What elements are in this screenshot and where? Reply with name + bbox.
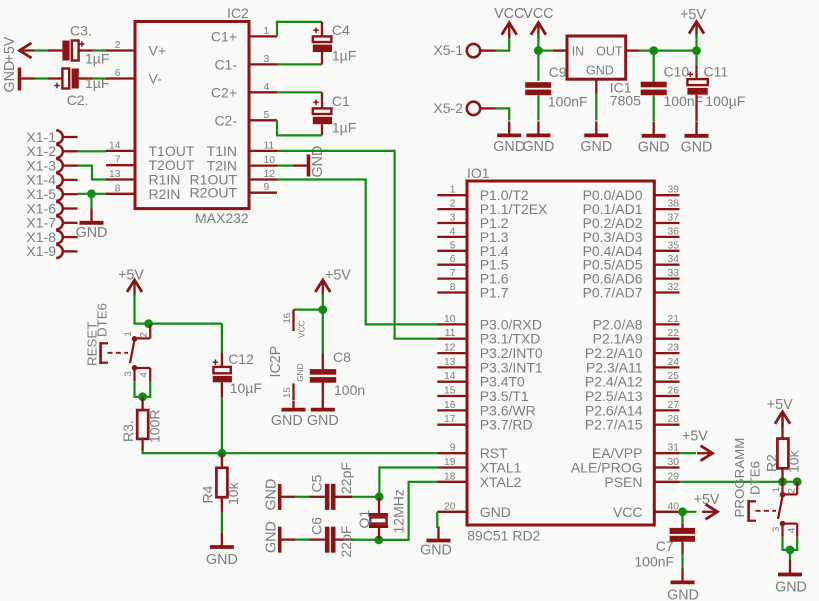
capacitor C6 22pF <box>309 517 355 558</box>
connector X5-2 <box>433 100 495 116</box>
svg-text:GND: GND <box>264 521 280 553</box>
svg-text:15: 15 <box>282 387 293 398</box>
connector X1-2 <box>26 143 77 159</box>
svg-text:10µF: 10µF <box>230 380 262 396</box>
svg-text:C1-: C1- <box>214 56 237 72</box>
ground GND under R4 <box>206 533 238 568</box>
wire switch pins 3/4 to R3 <box>135 381 151 397</box>
connector X1-9 <box>26 243 77 259</box>
svg-text:GND: GND <box>480 504 511 520</box>
ground GND under C10 <box>638 122 670 156</box>
wire IC2 pin4 to C1 top <box>277 91 322 93</box>
wire +5V to C11 <box>695 34 697 66</box>
svg-text:6: 6 <box>115 68 121 79</box>
IO1 pin 14 P3.4T0 <box>437 371 525 390</box>
wire IO1 XTAL1 to crystal top <box>379 468 437 497</box>
svg-text:100R: 100R <box>147 410 163 443</box>
junction at C11/+5V <box>692 46 701 55</box>
svg-text:37: 37 <box>668 213 680 224</box>
switch S-RESET DTE6 (pins 1,2) <box>123 325 150 342</box>
svg-text:35: 35 <box>668 240 680 251</box>
svg-text:IC2: IC2 <box>227 5 249 21</box>
wire IO1 XTAL2 to crystal bottom <box>379 482 438 540</box>
IC2 pin 9 R2OUT <box>190 182 277 201</box>
IC1 IN pin <box>553 49 567 51</box>
svg-text:C9: C9 <box>549 64 567 80</box>
svg-text:2: 2 <box>139 332 150 337</box>
svg-text:3: 3 <box>450 213 456 224</box>
connector X1-1 <box>26 129 77 145</box>
svg-text:15: 15 <box>444 386 456 397</box>
svg-text:R2: R2 <box>764 454 780 472</box>
power +5V at VCC pin <box>694 492 720 519</box>
connector X1-5 <box>26 186 77 202</box>
switch S-PROGRAMM (pins 3,4) <box>771 521 798 537</box>
wire junction to C10 <box>653 51 655 82</box>
wire VCC to IC1 IN and C9 <box>538 34 552 81</box>
connector X1-4 <box>26 172 77 188</box>
IC2 pin 11 T1IN <box>207 140 277 159</box>
svg-text:20: 20 <box>444 501 456 512</box>
wire +5V to C3 <box>35 49 49 51</box>
svg-text:GND: GND <box>586 64 614 78</box>
svg-text:7: 7 <box>450 268 456 279</box>
svg-text:GND: GND <box>271 413 303 429</box>
svg-text:31: 31 <box>668 443 680 454</box>
capacitor C5 22pF <box>309 462 355 510</box>
svg-text:XTAL2: XTAL2 <box>480 474 522 490</box>
svg-text:6: 6 <box>450 254 456 265</box>
svg-text:18: 18 <box>444 471 456 482</box>
junction RST rail / C12 / R4 <box>218 449 227 458</box>
junction under reset switch <box>138 392 147 401</box>
junction PSEN/R2 <box>778 477 787 486</box>
svg-text:V+: V+ <box>149 43 167 59</box>
svg-text:36: 36 <box>668 226 680 237</box>
IC2P pin 16 VCC <box>282 310 307 338</box>
svg-text:30: 30 <box>668 457 680 468</box>
svg-text:+5V: +5V <box>694 492 720 508</box>
svg-text:26: 26 <box>668 386 680 397</box>
svg-text:C2.: C2. <box>67 92 89 108</box>
IO1 pin 26 P2.5/A13 <box>585 386 680 405</box>
svg-text:GND: GND <box>76 225 108 241</box>
power +5V (regulator output) <box>680 7 706 37</box>
svg-text:GND: GND <box>2 61 18 93</box>
svg-text:C1+: C1+ <box>211 28 237 44</box>
wire +5V down to switch/C12 rail <box>135 294 222 324</box>
junction at reset switch <box>144 319 153 328</box>
resistor R4 10k <box>200 453 242 511</box>
switch S-RESET actuator <box>101 342 108 364</box>
svg-text:17: 17 <box>444 414 456 425</box>
IC2 pin 5 C2- <box>214 110 277 129</box>
label IC2P (rotated) <box>268 346 284 378</box>
label PROGRAMM (rotated) <box>732 438 747 518</box>
svg-text:VCC: VCC <box>523 6 553 22</box>
svg-text:14: 14 <box>109 140 121 151</box>
capacitor C9 100nF <box>525 64 587 110</box>
wire switch pins 3/4 to ground <box>783 537 798 550</box>
ground GND under IC2P pin15 <box>271 401 306 430</box>
svg-text:2: 2 <box>787 488 798 493</box>
power +5V (reset circuit) <box>118 267 144 295</box>
svg-text:GND: GND <box>264 479 280 511</box>
wire C10 to ground <box>653 95 655 121</box>
IC2 pin 13 R1IN <box>106 169 180 188</box>
wire IC1 GND to ground <box>595 94 597 121</box>
junction under programm switch <box>786 546 795 555</box>
wire X1-3 to IC2 R1IN <box>78 166 107 180</box>
IC2 pin 7 T2OUT <box>106 155 195 174</box>
svg-text:C8: C8 <box>333 349 351 365</box>
IO1 pin 28 P2.7/A15 <box>585 414 680 433</box>
wire C6 to crystal bottom <box>352 538 379 541</box>
ground GND at IC2 T2IN (rotated) <box>277 146 326 178</box>
svg-text:VCC: VCC <box>613 504 643 520</box>
IO1 pin 2 P1.1/T2EX <box>437 199 548 218</box>
svg-text:GND: GND <box>493 139 525 155</box>
capacitor C10 100nF <box>641 64 704 109</box>
svg-text:33: 33 <box>668 268 680 279</box>
wire PSEN to programm switch <box>680 481 799 483</box>
IO1 pin 10 P3.0/RXD <box>437 314 542 333</box>
IO1 pin 21 P2.0/A8 <box>593 314 680 333</box>
svg-text:8: 8 <box>115 183 121 194</box>
svg-text:C6: C6 <box>309 517 325 535</box>
wire EA/VPP to +5V <box>680 452 697 454</box>
svg-text:Q1: Q1 <box>356 510 372 529</box>
IO1 pin 32 P0.7/AD7 <box>583 282 680 301</box>
svg-text:GND: GND <box>523 139 555 155</box>
IO1 pin 12 P3.2/INT0 <box>437 343 543 362</box>
svg-text:89C51 RD2: 89C51 RD2 <box>467 528 540 544</box>
power +5V (programm circuit) <box>767 397 793 427</box>
junction PSEN/switch <box>793 477 802 486</box>
IO1 pin 34 P0.5/AD5 <box>583 254 680 273</box>
svg-text:C12: C12 <box>228 351 254 367</box>
svg-text:13: 13 <box>444 357 456 368</box>
svg-text:C4: C4 <box>332 22 350 38</box>
svg-text:3: 3 <box>123 371 134 376</box>
wire IC1 OUT to +5V rail <box>640 49 697 51</box>
svg-text:GND: GND <box>580 139 612 155</box>
wire IO1 GND pin to ground <box>436 512 438 528</box>
svg-text:R3.: R3. <box>120 420 136 442</box>
IO1 pin 4 P1.3 <box>437 226 508 245</box>
connector X1-7 <box>26 215 77 231</box>
label DTE6 (rotated) <box>95 303 110 337</box>
svg-text:C3.: C3. <box>70 23 92 39</box>
wire IC2 R1OUT to IO1 P3.0/RXD <box>277 180 437 325</box>
svg-text:4: 4 <box>450 226 456 237</box>
svg-text:C11: C11 <box>704 64 729 80</box>
svg-text:23: 23 <box>668 343 680 354</box>
IO1 pin 1 P1.0/T2 <box>437 185 529 204</box>
IC1 GND pin <box>595 79 597 93</box>
capacitor C1 1uF (polarized, vertical) <box>313 92 357 135</box>
ground GND under IO1 pin20 <box>420 527 452 559</box>
svg-text:1: 1 <box>264 26 270 37</box>
svg-text:25: 25 <box>668 371 680 382</box>
IC1 OUT pin <box>626 49 640 51</box>
IC2 pin 1 C1+ <box>211 26 277 45</box>
IO1 pin 39 P0.0/AD0 <box>583 185 680 204</box>
svg-text:+5V: +5V <box>118 267 144 283</box>
svg-text:22pF: 22pF <box>338 526 354 558</box>
svg-text:VCC: VCC <box>494 6 524 22</box>
svg-text:2: 2 <box>450 199 456 210</box>
svg-text:PSEN: PSEN <box>604 474 642 490</box>
svg-text:2: 2 <box>115 40 121 51</box>
svg-text:100nF: 100nF <box>634 554 674 570</box>
svg-text:VCC: VCC <box>297 320 307 338</box>
op-amp/IC IC2 MAX232 body <box>135 5 249 226</box>
ground GND under X5-2 <box>493 121 525 154</box>
wire X1-5 to IC2 R2IN <box>78 193 107 195</box>
IO1 pin 30 ALE/PROG <box>571 457 680 476</box>
IO1 pin 22 P2.1/A9 <box>593 328 680 347</box>
capacitor C2 1uF (polarized, horizontal) <box>48 69 109 109</box>
svg-text:100n: 100n <box>334 382 365 398</box>
IO1 pin 7 P1.6 <box>437 268 508 287</box>
svg-text:22pF: 22pF <box>338 462 354 494</box>
IO1 pin 8 P1.7 <box>437 282 508 301</box>
svg-text:12: 12 <box>264 169 276 180</box>
wire GND to C5 <box>295 496 310 498</box>
svg-text:12: 12 <box>444 343 456 354</box>
IO1 pin 11 P3.1/TXD <box>437 328 540 347</box>
svg-text:OUT: OUT <box>596 45 623 59</box>
svg-text:10k: 10k <box>225 481 241 505</box>
IC2 pin 8 R2IN <box>106 183 180 202</box>
ground GND left of C5 (rotated) <box>264 479 296 511</box>
IC2 pin 6 V- <box>106 68 162 87</box>
svg-text:32: 32 <box>668 282 680 293</box>
svg-text:GND: GND <box>775 580 807 596</box>
switch S-PROGRAMM DTE6 (pins 1,2) <box>771 482 798 498</box>
IO1 pin 9 RST <box>437 443 508 462</box>
IO1 pin 40 VCC <box>613 501 680 520</box>
capacitor C8 100n <box>310 349 365 398</box>
IO1 pin 16 P3.6/WR <box>437 400 535 419</box>
IO1 pin 35 P0.4/AD4 <box>583 240 680 258</box>
svg-text:X5-2: X5-2 <box>433 100 463 116</box>
svg-text:V-: V- <box>149 71 163 87</box>
ground GND under C7 <box>667 568 699 601</box>
IO1 pin 15 P3.5/T1 <box>437 386 529 405</box>
svg-text:+5V: +5V <box>325 267 351 283</box>
svg-text:X5-1: X5-1 <box>433 42 463 58</box>
capacitor C12 10uF (polarized, vertical) <box>213 324 262 397</box>
svg-text:100nF: 100nF <box>548 94 588 110</box>
svg-text:34: 34 <box>668 254 680 265</box>
ground GND (left, rotated) <box>2 61 35 93</box>
wire X5-1 to VCC <box>496 34 510 51</box>
svg-text:22: 22 <box>668 328 680 339</box>
svg-text:P2.7/A15: P2.7/A15 <box>585 417 643 433</box>
svg-text:21: 21 <box>668 314 680 325</box>
wire C12 to RST rail <box>221 397 223 453</box>
svg-text:C2-: C2- <box>214 112 237 128</box>
wire C5 to crystal top <box>352 496 379 498</box>
IC2 pin 4 C2+ <box>211 82 277 101</box>
resistor R2 10k <box>764 413 802 482</box>
svg-text:27: 27 <box>668 400 680 411</box>
IO1 pin 38 P0.1/AD1 <box>583 199 680 218</box>
IO1 pin 19 XTAL1 <box>437 457 521 476</box>
wire GND to C2 <box>35 77 49 79</box>
junction crystal bottom <box>374 536 383 545</box>
svg-text:IN: IN <box>572 45 585 59</box>
svg-text:10k: 10k <box>786 449 802 473</box>
svg-text:P0.7/AD7: P0.7/AD7 <box>583 285 643 301</box>
ground GND under X1-5 <box>76 209 108 241</box>
svg-text:C2+: C2+ <box>211 84 237 100</box>
IO1 pin 5 P1.4 <box>437 240 508 258</box>
capacitor C3 1uF (polarized, horizontal) <box>48 23 109 67</box>
ground GND under C8 <box>307 396 339 430</box>
svg-text:5: 5 <box>264 110 270 121</box>
connector X1-3 <box>26 157 77 173</box>
wire IC2 pin1 to C4 top <box>277 22 322 37</box>
svg-text:24: 24 <box>668 357 680 368</box>
svg-text:C10: C10 <box>664 64 690 80</box>
svg-text:16: 16 <box>444 400 456 411</box>
svg-text:+5V: +5V <box>2 36 18 62</box>
wire X5-2 to ground <box>496 108 510 120</box>
svg-text:C1: C1 <box>332 93 350 109</box>
svg-text:GND: GND <box>638 139 670 155</box>
wire +5V to IC2P VCC and C8 <box>294 294 323 354</box>
svg-text:IC2P: IC2P <box>268 346 284 378</box>
svg-text:19: 19 <box>444 457 456 468</box>
svg-text:10: 10 <box>264 155 276 166</box>
wire C8 to ground <box>322 383 324 396</box>
IC2 pin 14 T1OUT <box>106 140 195 159</box>
svg-text:4: 4 <box>264 82 270 93</box>
svg-text:GND: GND <box>206 552 238 568</box>
svg-text:GND: GND <box>295 363 305 381</box>
capacitor C11 100uF (polarized, vertical) <box>687 64 745 122</box>
svg-text:R2IN: R2IN <box>149 186 181 202</box>
svg-text:4: 4 <box>139 372 150 377</box>
IO1 pin 36 P0.3/AD3 <box>583 226 680 245</box>
wire junction down to ground <box>90 194 92 209</box>
power +5V at EA/VPP <box>682 429 713 461</box>
svg-text:16: 16 <box>282 313 293 324</box>
IO1 pin 18 XTAL2 <box>437 471 521 490</box>
ground GND under C9 <box>523 121 555 154</box>
switch S-RESET contact arm <box>108 340 135 363</box>
ground GND left of C6 (rotated) <box>264 521 296 553</box>
wire C7 to ground <box>681 553 683 569</box>
IO1 pin 31 EA/VPP <box>592 443 680 462</box>
wire C2 to MAX232 V- <box>93 77 106 79</box>
IC2 pin 10 T2IN <box>207 155 277 174</box>
junction at X1-5 <box>87 189 96 198</box>
svg-text:GND: GND <box>420 543 452 559</box>
svg-text:T1IN: T1IN <box>207 143 237 159</box>
junction crystal top <box>375 492 384 501</box>
wire IC2 T1IN to IO1 P3.1/TXD <box>277 151 437 339</box>
switch S-PROGRAMM contact arm <box>756 496 783 519</box>
wire GND to C6 <box>295 538 310 540</box>
resistor R3 100R <box>120 397 163 451</box>
svg-text:9: 9 <box>264 182 270 193</box>
svg-text:1µF: 1µF <box>332 48 356 64</box>
svg-text:C7: C7 <box>656 538 674 554</box>
IO1 pin 27 P2.6/A14 <box>585 400 680 419</box>
wire R3 to RST rail <box>143 451 438 454</box>
svg-text:GND: GND <box>681 139 713 155</box>
wire C4 bottom to IC2 pin3 <box>277 63 322 65</box>
svg-text:38: 38 <box>668 199 680 210</box>
wire C3 to MAX232 V+ <box>93 49 106 51</box>
ground GND under C11 <box>681 122 713 156</box>
svg-text:R4: R4 <box>200 485 216 503</box>
connector X5-1 <box>433 42 495 58</box>
svg-text:X1-9: X1-9 <box>26 243 56 259</box>
IO1 pin 23 P2.2/A10 <box>585 343 680 362</box>
label RESET (rotated) <box>85 322 100 366</box>
ground GND under programm switch <box>775 561 807 596</box>
svg-text:DTE6: DTE6 <box>95 303 110 337</box>
svg-text:7: 7 <box>115 155 121 166</box>
svg-text:+5V: +5V <box>680 7 706 23</box>
wire R4 to ground <box>221 512 223 534</box>
svg-text:11: 11 <box>264 140 275 151</box>
power +5V (left, rotated) <box>2 36 35 62</box>
label DTE6 (programm, rotated) <box>748 461 763 495</box>
IC2 pin 3 C1- <box>214 54 277 73</box>
wire junction to ground <box>789 550 791 561</box>
ground GND under IC1 <box>580 121 612 154</box>
IO1 pin 37 P0.2/AD2 <box>583 213 680 232</box>
svg-text:+5V: +5V <box>682 429 708 445</box>
switch S-PROGRAMM actuator <box>749 500 756 522</box>
svg-text:9: 9 <box>450 443 456 454</box>
voltage regulator IC1 7805 body <box>567 36 641 109</box>
IO1 pin 25 P2.4/A12 <box>585 371 680 390</box>
svg-text:1: 1 <box>123 331 134 336</box>
svg-text:29: 29 <box>668 471 680 482</box>
svg-text:DTE6: DTE6 <box>748 461 763 495</box>
IC2 pin 12 R1OUT <box>190 169 277 188</box>
IO1 pin 29 PSEN <box>604 471 679 490</box>
svg-text:11: 11 <box>445 328 456 339</box>
IO1 pin 33 P0.6/AD6 <box>583 268 680 287</box>
IO1 pin 17 P3.7/RD <box>437 414 532 433</box>
svg-text:1: 1 <box>771 487 782 492</box>
svg-text:7805: 7805 <box>610 93 641 109</box>
svg-text:IO1: IO1 <box>467 165 490 181</box>
switch S-RESET (pins 3,4) <box>123 365 150 381</box>
svg-text:R2OUT: R2OUT <box>190 185 238 201</box>
svg-text:10: 10 <box>444 314 456 325</box>
svg-text:14: 14 <box>444 371 456 382</box>
wire C9 to ground <box>537 95 539 120</box>
junction VCC/C7 <box>678 507 687 516</box>
svg-text:PROGRAMM: PROGRAMM <box>732 438 747 518</box>
IO1 pin 6 P1.5 <box>437 254 508 273</box>
svg-text:13: 13 <box>109 169 121 180</box>
svg-text:C5: C5 <box>309 474 325 492</box>
svg-text:GND: GND <box>307 413 339 429</box>
svg-text:39: 39 <box>668 185 680 196</box>
svg-text:P1.7: P1.7 <box>480 285 509 301</box>
svg-text:3: 3 <box>771 527 782 532</box>
